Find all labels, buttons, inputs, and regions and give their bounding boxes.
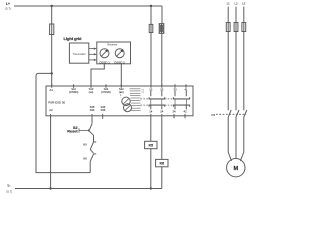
wire A2 to L- (50, 116, 52, 189)
contact bridge row1 33/41 (174, 91, 176, 97)
terminal 42 (184, 114, 186, 118)
terminal S21 (105, 84, 107, 88)
wire L3 to motor (240, 117, 244, 161)
wire K5 to L- (150, 149, 152, 189)
node L2 phase (235, 7, 237, 23)
terminal 33 (174, 84, 176, 88)
node L3 phase (243, 7, 245, 23)
fuse F1 (50, 24, 54, 35)
terminal A1 (51, 84, 53, 88)
motor M1 (227, 159, 245, 177)
svg-text:41: 41 (184, 87, 188, 91)
wire L+ to fuse F1 (51, 6, 53, 24)
mechanical linkage dashes row1 (141, 98, 150, 100)
svg-text:A2: A2 (49, 108, 53, 112)
junction dot K5 on rail (150, 187, 152, 189)
terminal S22 (120, 84, 122, 88)
svg-text:K5: K5 (212, 113, 216, 117)
junction dot bypass tap (51, 72, 53, 74)
svg-text:L+: L+ (6, 2, 10, 6)
terminal A2 (50, 114, 52, 118)
pushbutton S2 blade (89, 124, 92, 131)
svg-text:23: 23 (160, 87, 164, 91)
terminal 14 (150, 114, 152, 118)
wire L1 to motor (228, 117, 231, 161)
main contact K5 L3 (244, 110, 247, 117)
mechanical linkage dashes row2 (141, 104, 150, 106)
svg-text:Receiver: Receiver (107, 43, 117, 47)
svg-text:S36: S36 (101, 108, 106, 112)
main contact K5 L1 (228, 110, 231, 117)
terminal S12 (90, 84, 92, 88)
relay coil symbol K2 (124, 104, 132, 112)
light beam arrows (89, 49, 96, 60)
wire bypass L+ to reset chain (36, 73, 90, 172)
fuse F4 (226, 23, 230, 32)
svg-text:OSSD 1: OSSD 1 (99, 60, 110, 64)
wire K6 to L- (161, 167, 163, 189)
svg-text:L2: L2 (235, 1, 238, 5)
svg-text:Light grid: Light grid (64, 36, 83, 41)
terminal S33 (102, 114, 104, 119)
junction dot A2 on rail (49, 187, 51, 189)
terminal 41 (185, 84, 187, 88)
svg-text:K6: K6 (160, 162, 164, 166)
junction dot at fuse F2 branch (150, 5, 152, 7)
svg-text:42: 42 (183, 110, 187, 114)
contact bridge row2 33/41 (174, 99, 176, 105)
wire F1 to A1 (51, 35, 53, 87)
pushbutton S2 actuator (79, 128, 89, 132)
fuse F5 (234, 23, 238, 32)
svg-text:(su): (su) (119, 90, 124, 94)
node L- rail (15, 188, 162, 190)
transmitter box (69, 43, 88, 63)
wire corner L+ to F3 (161, 6, 163, 24)
contact bridge row1 13/23 (150, 91, 152, 97)
node L+ rail (14, 5, 162, 7)
wire L2 to motor (235, 117, 237, 159)
wire F3 to terminal 23 (161, 33, 163, 86)
svg-text:L1: L1 (227, 1, 230, 5)
svg-text:S34: S34 (90, 108, 95, 112)
svg-text:Y2: Y2 (141, 92, 144, 94)
wire S35 to S2 (91, 118, 93, 124)
terminal 13 (150, 84, 152, 88)
svg-text:M: M (233, 166, 238, 172)
wire OSSD1 to S12 (91, 64, 104, 86)
svg-text:24: 24 (160, 110, 164, 114)
relay coil symbol K1 (122, 97, 130, 105)
OSSD output symbol 1 (100, 49, 109, 58)
wire S2 to K5 contact (89, 131, 94, 142)
mechanical linkage to main contacts (216, 113, 246, 115)
svg-text:34: 34 (172, 110, 176, 114)
wire 24 to coil K6 (161, 118, 163, 160)
aux contact K5 NC (94, 141, 97, 143)
svg-text:PSR-ESD 30: PSR-ESD 30 (48, 100, 65, 104)
wire K6 contact down (89, 161, 91, 172)
svg-text:K6: K6 (83, 156, 87, 160)
receiver box (97, 42, 131, 64)
main contact K5 L2 (236, 110, 239, 117)
svg-text:14: 14 (149, 110, 153, 114)
fuse F2 (149, 24, 153, 32)
terminal S11 (73, 84, 75, 88)
svg-text:33: 33 (173, 87, 177, 91)
OSSD output symbol 2 (115, 49, 124, 58)
svg-text:(OSSD): (OSSD) (101, 90, 111, 94)
svg-text:(5.7): (5.7) (6, 189, 12, 193)
aux contact K6 NC (94, 153, 97, 155)
svg-text:L3: L3 (242, 1, 245, 5)
wire OSSD2 to S22 (120, 64, 122, 86)
junction dot at fuse F1 branch (51, 5, 53, 7)
contact bridge row2 13/23 (150, 99, 152, 105)
contactor coil K6 (156, 159, 168, 166)
wire K5 to K6 contact (90, 149, 93, 153)
dashed test line S22 (120, 92, 122, 98)
node L1 phase (227, 7, 229, 23)
svg-text:Transmitter: Transmitter (73, 52, 86, 56)
terminal 23 (161, 84, 163, 88)
svg-text:L-: L- (8, 183, 11, 187)
wire F2 to terminal 13 (150, 33, 152, 87)
svg-text:K5: K5 (83, 142, 87, 146)
terminal 34 (173, 114, 175, 118)
fuse F6 (242, 23, 246, 32)
terminal 24 (161, 114, 163, 118)
svg-text:K5: K5 (149, 143, 153, 147)
svg-text:13: 13 (149, 87, 153, 91)
svg-text:(su): (su) (89, 90, 94, 94)
internal link lines (130, 89, 141, 111)
svg-text:Reset: Reset (67, 130, 78, 134)
terminal S35 (91, 114, 93, 118)
wire 14 to coil K5 (150, 118, 152, 142)
contactor coil K5 (145, 141, 157, 148)
svg-text:(OSSD): (OSSD) (69, 90, 79, 94)
svg-text:OSSD 2: OSSD 2 (114, 60, 125, 64)
wire L+ to fuse F2 (150, 6, 152, 24)
safety relay U1 box (46, 86, 193, 116)
svg-text:(5.7): (5.7) (5, 7, 11, 11)
svg-text:A1: A1 (50, 88, 54, 92)
fuse F3 (159, 24, 163, 34)
